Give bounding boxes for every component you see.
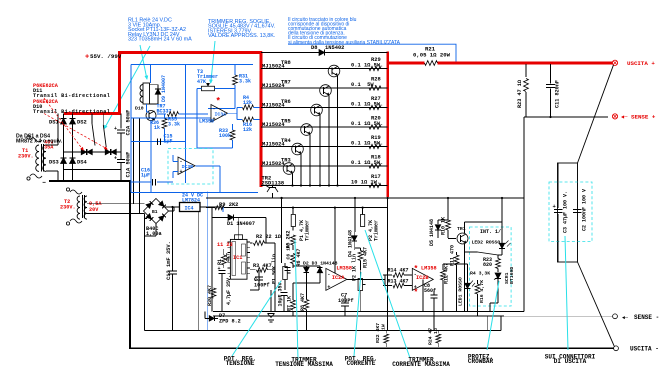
wire: +55V/99V red feed: [64, 51, 262, 113]
svg-text:11 23: 11 23: [217, 242, 233, 248]
svg-text:MJ15024: MJ15024: [262, 122, 285, 128]
svg-text:230V.: 230V.: [18, 154, 34, 160]
svg-text:P1 50K lin.: P1 50K lin.: [272, 251, 278, 284]
svg-text:R9 2K2: R9 2K2: [219, 202, 238, 208]
capacitor C11: [546, 62, 561, 117]
leader to trimmer T3: [209, 41, 215, 84]
op-amp IC3A: [199, 97, 228, 125]
svg-text:1µF: 1µF: [141, 173, 150, 179]
wire: output rail red: [388, 62, 613, 65]
wire: output row 3: [261, 107, 388, 109]
resistor R23: [517, 62, 528, 117]
svg-text:DS3: DS3: [49, 160, 59, 166]
svg-text:VALORE APPROSS. 13,8K.: VALORE APPROSS. 13,8K.: [208, 33, 275, 39]
wire: T1 secondary to bridge: [46, 114, 58, 182]
svg-text:R7 1K: R7 1K: [287, 296, 293, 311]
svg-text:MR872 x 4 o equiv.: MR872 x 4 o equiv.: [16, 139, 63, 145]
svg-text:USCITA -: USCITA -: [630, 346, 659, 353]
svg-text:MJ15024: MJ15024: [262, 83, 285, 89]
capacitor C16: [131, 168, 173, 186]
potentiometer P2: [352, 254, 366, 312]
label trimmer tensione: [275, 357, 333, 369]
wire: output row 2: [261, 87, 388, 89]
label pot reg tensione: [224, 355, 256, 367]
wire: B1 minus drop: [145, 212, 199, 331]
wire: IC2A out: [347, 275, 385, 286]
svg-text:D5 1N4148: D5 1N4148: [429, 219, 435, 246]
box: output caps dashed: [549, 182, 592, 242]
svg-text:R13 4K7: R13 4K7: [388, 279, 409, 285]
resistor R27: [351, 96, 383, 110]
wire: rail B: [213, 315, 504, 317]
resistor R16: [237, 113, 260, 133]
op-amp IC2B: [412, 265, 436, 298]
svg-text:820: 820: [483, 262, 492, 268]
wire: blue mid rail: [131, 141, 186, 143]
svg-text:CROWBAR: CROWBAR: [468, 358, 494, 365]
wire: rail C: [145, 316, 502, 331]
diode DS4: [70, 158, 88, 166]
wire: minus bus: [42, 179, 130, 348]
diode D5: [429, 219, 441, 246]
leader to P2 trimmer: [365, 230, 410, 358]
svg-text:1N5402: 1N5402: [325, 45, 344, 51]
resistor R21: [413, 46, 451, 66]
svg-text:LM7824: LM7824: [182, 198, 200, 204]
svg-text:3.3k: 3.3k: [168, 122, 180, 128]
svg-text:+: +: [218, 266, 221, 272]
terminal USCITA -: [614, 346, 659, 353]
label 11 23: [217, 242, 233, 248]
diode D7: [205, 312, 241, 325]
svg-text:IC4: IC4: [185, 205, 194, 211]
capacitor C1A: [114, 152, 132, 181]
wire: B1 plus: [165, 207, 180, 211]
capacitor C14: [218, 266, 233, 312]
leader to P2 pot: [354, 272, 361, 356]
wire: relay coil feed: [150, 65, 152, 84]
chip IC1: [227, 217, 250, 279]
wire: blue v2: [185, 65, 187, 184]
resistor R18: [351, 155, 383, 169]
wire: rectifier column 2: [72, 114, 74, 182]
capacitor C4: [250, 270, 270, 290]
diode DS1: [49, 118, 67, 125]
svg-text:*: *: [216, 97, 221, 107]
svg-text:47K: 47K: [197, 79, 206, 85]
svg-text:R23 47 1Ω: R23 47 1Ω: [517, 80, 523, 108]
wire: blue plus input: [131, 117, 211, 119]
svg-text:IC2A: IC2A: [332, 275, 345, 281]
diode D3: [303, 261, 338, 284]
label transil D11: [33, 83, 110, 99]
svg-text:SENSE +: SENSE +: [631, 114, 656, 121]
wire: T2 return: [144, 219, 146, 331]
relay contact a: [92, 114, 95, 146]
svg-text:B1: B1: [152, 209, 158, 215]
svg-text:◄─: ◄─: [621, 115, 628, 121]
svg-text:R2 22 1Ω: R2 22 1Ω: [256, 234, 281, 240]
leader to P1 trimmer: [295, 240, 298, 360]
leader transil D10: [44, 114, 108, 150]
svg-text:0.1 5W.: 0.1 5W.: [351, 82, 377, 88]
svg-text:0.1 1Ω 5W.: 0.1 1Ω 5W.: [351, 101, 383, 107]
diode DS3: [49, 158, 67, 166]
svg-text:+: +: [114, 156, 117, 162]
svg-text:0.1 1Ω 5W.: 0.1 1Ω 5W.: [351, 140, 383, 146]
transistor TR3: [283, 163, 295, 175]
svg-text:INT. 1/: INT. 1/: [480, 229, 501, 235]
trimmer T3: [197, 69, 235, 148]
wire: T2 to B1: [87, 204, 147, 219]
op-amp IC3B: [173, 155, 220, 193]
svg-text:ZPD 8.2: ZPD 8.2: [219, 319, 241, 325]
svg-text:R15 4K7: R15 4K7: [363, 247, 369, 268]
svg-text:C6 1n: C6 1n: [286, 245, 292, 260]
wire: TR6 emitter drop: [319, 115, 321, 187]
capacitor C13: [166, 206, 177, 331]
svg-text:230V.: 230V.: [60, 205, 76, 211]
label T1 230V: [18, 148, 34, 160]
svg-text:R22 4K7: R22 4K7: [375, 323, 381, 343]
resistor R36: [150, 114, 167, 142]
svg-text:D9 1N4007: D9 1N4007: [161, 75, 167, 102]
resistor R14: [383, 268, 412, 278]
svg-text:4,7µF 35V.: 4,7µF 35V.: [226, 275, 232, 305]
label IC4: [182, 193, 203, 204]
svg-text:P2 1K lin: P2 1K lin: [352, 254, 358, 281]
svg-text:DI USCITA: DI USCITA: [554, 358, 587, 365]
svg-text:0,05 1Ω 20W: 0,05 1Ω 20W: [413, 52, 451, 59]
label transil D10: [33, 99, 110, 115]
terminal USCITA +: [612, 60, 655, 67]
label pot reg corrente: [345, 355, 377, 367]
wire: feedback column: [274, 243, 276, 312]
wire: relay feed 2: [139, 118, 141, 214]
resistor R3: [250, 263, 275, 272]
resistor R9: [215, 202, 238, 210]
transistor TR1: [448, 222, 468, 252]
wire: aux bus 2: [206, 207, 388, 209]
wire: drops to rails: [293, 197, 434, 331]
wire: rectifier lower row: [64, 169, 122, 171]
svg-text:0.1 1Ω 5W.: 0.1 1Ω 5W.: [351, 121, 383, 127]
svg-text:10µF 35V.: 10µF 35V.: [278, 279, 284, 306]
resistor R28: [351, 77, 381, 91]
svg-text:D4 1N4148: D4 1N4148: [348, 230, 354, 257]
wire: ladder verticals: [457, 252, 488, 331]
leader to output caps: [565, 236, 568, 350]
svg-text:IC3B: IC3B: [182, 164, 194, 170]
trimmer P2t: [361, 208, 380, 241]
transistor TR4: [292, 143, 304, 155]
resistor R30: [207, 285, 216, 306]
resistor R7: [287, 283, 296, 311]
svg-text:CORRENTE: CORRENTE: [347, 360, 376, 367]
resistor R19: [351, 135, 383, 149]
box: IC3B dashed: [168, 149, 213, 185]
svg-text:-: -: [213, 106, 216, 112]
label 0,5A 20V: [89, 201, 102, 213]
wire: sense+ line: [526, 116, 608, 118]
svg-text:R6 4K7: R6 4K7: [296, 248, 302, 266]
svg-text:Trimmer: Trimmer: [305, 220, 311, 241]
svg-text:R11 470: R11 470: [450, 245, 456, 266]
wire: control feed: [211, 207, 213, 312]
resistor R12: [441, 263, 450, 312]
svg-text:1k: 1k: [154, 125, 160, 131]
resistor R1: [217, 249, 232, 268]
diode D9: [150, 75, 168, 104]
relay contact b: [103, 114, 106, 148]
leader to relay contacts: [104, 46, 150, 129]
resistor R5: [286, 230, 296, 250]
wire: sense- line: [504, 315, 612, 317]
resistor R17: [351, 174, 381, 188]
svg-text:3.3k: 3.3k: [239, 79, 251, 85]
svg-text:C13 1mF 35V.: C13 1mF 35V.: [166, 241, 172, 280]
label INT 1: [480, 229, 501, 235]
wire: aux bus: [206, 197, 524, 199]
label TR6: [262, 99, 291, 109]
svg-text:1W: 1W: [381, 324, 387, 330]
svg-text:*: *: [414, 265, 419, 274]
svg-text:LED1 ROSSO: LED1 ROSSO: [458, 277, 464, 306]
terminal SENSE -: [613, 314, 660, 321]
transistor TR7: [320, 85, 332, 97]
svg-text:LED2 ROSSO: LED2 ROSSO: [472, 240, 501, 246]
wire: relay feed 1: [133, 118, 135, 204]
svg-text:IC3A: IC3A: [215, 112, 227, 118]
svg-text:0.1 1Ω 5W.: 0.1 1Ω 5W.: [351, 160, 383, 166]
label T2 230V: [60, 199, 76, 211]
resistor R20: [351, 116, 383, 130]
label sui connettori: [545, 353, 596, 365]
label TR8: [262, 60, 291, 70]
note: blue circuit annotation: [288, 17, 401, 46]
svg-text:DS4: DS4: [77, 160, 87, 166]
op-amp IC2A: [326, 208, 352, 291]
transistor TR7 BC337: [146, 104, 172, 193]
svg-text:10 1Ω 1W.: 10 1Ω 1W.: [351, 179, 380, 185]
resistor R23b: [483, 255, 500, 272]
capacitor C3: [553, 163, 569, 262]
resistor R31: [233, 65, 251, 89]
svg-text:C2 100nF 100 V: C2 100nF 100 V: [582, 189, 588, 231]
wire: output diagonal upper: [578, 65, 614, 163]
leader transil D11: [44, 98, 84, 151]
label TR5: [262, 118, 291, 128]
resistor R10: [438, 198, 450, 238]
resistor R22: [375, 323, 389, 347]
svg-text:12k: 12k: [243, 100, 252, 106]
wire: collector bus left (red): [260, 51, 263, 187]
svg-text:USCITA +: USCITA +: [627, 60, 655, 67]
wire: IC4 out: [200, 192, 223, 331]
wire: TR5 emitter drop: [309, 135, 311, 187]
LED LED1: [458, 277, 476, 311]
resistor R11: [450, 245, 459, 285]
wire: transil row: [64, 151, 122, 153]
leader to P1 pot: [232, 281, 281, 356]
svg-text:TENSIONE MASSIMA: TENSIONE MASSIMA: [275, 361, 333, 368]
regulator IC4: [180, 203, 201, 212]
svg-text:-: -: [180, 159, 183, 165]
svg-text:MJ15024: MJ15024: [262, 142, 285, 148]
wire: TR8 emitter drop: [336, 76, 338, 187]
svg-text:MJ15024: MJ15024: [262, 103, 285, 109]
relay RL1 coil: [135, 83, 150, 112]
svg-text:20V: 20V: [89, 207, 99, 213]
transistor TR2 driver: [266, 186, 278, 199]
wire: comparator input: [208, 89, 235, 109]
label Da DS1 a DS4: [16, 134, 63, 145]
terminal SENSE +: [612, 114, 655, 121]
diode D8: [311, 45, 344, 56]
svg-text:D1 1N4007: D1 1N4007: [227, 221, 255, 227]
svg-text:–: –: [42, 179, 46, 187]
transistor TR8: [328, 65, 340, 77]
diode D1: [227, 214, 255, 227]
svg-text:1µF: 1µF: [164, 139, 173, 145]
wire: TR3 emitter drop: [291, 174, 293, 187]
svg-text:BT169D: BT169D: [509, 267, 515, 284]
svg-text:100k: 100k: [219, 133, 231, 139]
wire: blue left rail: [130, 65, 132, 193]
note: trimmer soglie annotation: [208, 19, 275, 39]
svg-text:R8 4K7: R8 4K7: [300, 293, 306, 311]
svg-text:IC2B: IC2B: [416, 275, 428, 281]
svg-text:D10: D10: [135, 106, 144, 112]
svg-text:R30 4K7: R30 4K7: [207, 285, 213, 306]
connector block: [558, 163, 578, 262]
svg-text:MJ15024: MJ15024: [262, 64, 285, 70]
svg-text:+: +: [85, 54, 89, 62]
diode D4: [348, 198, 358, 257]
svg-text:C3 47µF 100 V.: C3 47µF 100 V.: [563, 191, 569, 233]
wire: sense drop: [524, 117, 526, 312]
capacitor C7: [338, 293, 354, 312]
svg-text:D8: D8: [311, 45, 317, 51]
wire: output row 5: [261, 146, 388, 148]
box: INT1 dashed: [470, 227, 512, 306]
label protez crowbar: [468, 353, 494, 365]
capacitor C15: [158, 134, 173, 145]
capacitor C2A: [114, 110, 132, 152]
trimmer P1t: [291, 215, 310, 242]
label B40C: [146, 226, 162, 237]
resistor R16b: [475, 280, 485, 316]
resistor R24: [428, 328, 441, 347]
svg-text:◄─: ◄─: [622, 315, 629, 321]
transformer T2: [66, 188, 87, 225]
svg-text:12k: 12k: [243, 127, 252, 133]
wire: blue top rail: [131, 64, 253, 66]
SCR SCR1: [494, 267, 515, 303]
capacitor C8: [424, 283, 438, 303]
svg-text:DS2: DS2: [77, 120, 87, 126]
svg-text:-: -: [327, 271, 330, 277]
svg-text:*: *: [414, 289, 419, 298]
label TR3: [262, 157, 291, 167]
resistor R13: [383, 279, 412, 288]
svg-text:55V. /99V: 55V. /99V: [90, 53, 122, 60]
leader to relay coil: [140, 45, 148, 80]
rectifier B1: [144, 199, 169, 224]
wire: uscita- bus: [129, 347, 613, 349]
wire: bypass diode line: [261, 52, 388, 54]
wire: rectifier column 1: [63, 114, 65, 182]
svg-text:SENSE -: SENSE -: [634, 314, 659, 321]
wire: output row 6: [261, 165, 388, 167]
svg-text:LM358: LM358: [336, 265, 352, 271]
svg-text:R24 47: R24 47: [428, 328, 434, 345]
wire: output row 1: [261, 68, 388, 70]
svg-text:Trimmer: Trimmer: [374, 220, 380, 241]
wire: crowbar links: [443, 198, 502, 312]
wire: IC1 supply: [212, 217, 266, 243]
svg-text:0.1 1Ω 5W.: 0.1 1Ω 5W.: [351, 62, 383, 68]
potentiometer P1: [272, 251, 291, 290]
wire: emitter bus right (red): [386, 51, 389, 197]
diode D2: [304, 266, 310, 283]
note: relay RL1 annotation: [128, 18, 192, 43]
LED LED2: [472, 240, 511, 256]
svg-text:4K7: 4K7: [226, 253, 232, 262]
svg-text:CORRENTE MASSIMA: CORRENTE MASSIMA: [392, 361, 450, 368]
capacitor C2: [573, 163, 588, 262]
capacitor C6: [285, 245, 292, 271]
label TR7: [262, 79, 291, 89]
resistor R4: [228, 95, 260, 113]
label trimmer corrente: [392, 357, 450, 369]
ground: control: [268, 290, 275, 322]
label R4b: [470, 271, 490, 277]
svg-text:TENSIONE: TENSIONE: [226, 360, 255, 367]
wire: d2d3: [293, 266, 320, 283]
svg-text:R14 4K7: R14 4K7: [388, 268, 409, 274]
svg-text:323 T0358mH 24 V 60 mA: 323 T0358mH 24 V 60 mA: [128, 37, 192, 43]
wire: output diagonal lower: [578, 262, 615, 347]
svg-text:DS1: DS1: [49, 120, 59, 126]
resistor R35: [157, 112, 208, 128]
svg-text:IC1: IC1: [233, 255, 242, 261]
transil D11: [81, 149, 92, 155]
wire: TR4 emitter drop: [300, 154, 302, 187]
label TR2: [262, 176, 285, 187]
svg-text:C11 820nF: C11 820nF: [555, 80, 561, 108]
svg-text:+: +: [114, 126, 117, 132]
capacitor C5: [278, 279, 288, 311]
svg-text:+: +: [180, 169, 183, 175]
transil D10: [105, 149, 116, 155]
svg-text:100Pf: 100Pf: [254, 283, 270, 289]
wire: vset column top: [281, 197, 294, 263]
label 40V 35A: [44, 140, 54, 151]
wire: output row 4: [261, 126, 388, 128]
resistor R29: [351, 57, 383, 71]
svg-text:LM358: LM358: [421, 265, 437, 271]
wire: output row 7: [261, 185, 388, 187]
transistor TR5: [301, 124, 313, 136]
svg-text:R4 3,3K: R4 3,3K: [470, 271, 490, 277]
wire: TR7 emitter drop: [328, 96, 330, 187]
transistor TR6: [311, 104, 323, 116]
resistor R15: [355, 247, 369, 270]
resistor R6: [291, 248, 302, 268]
wire: rail A: [213, 311, 524, 313]
leader to SCR: [487, 281, 499, 350]
